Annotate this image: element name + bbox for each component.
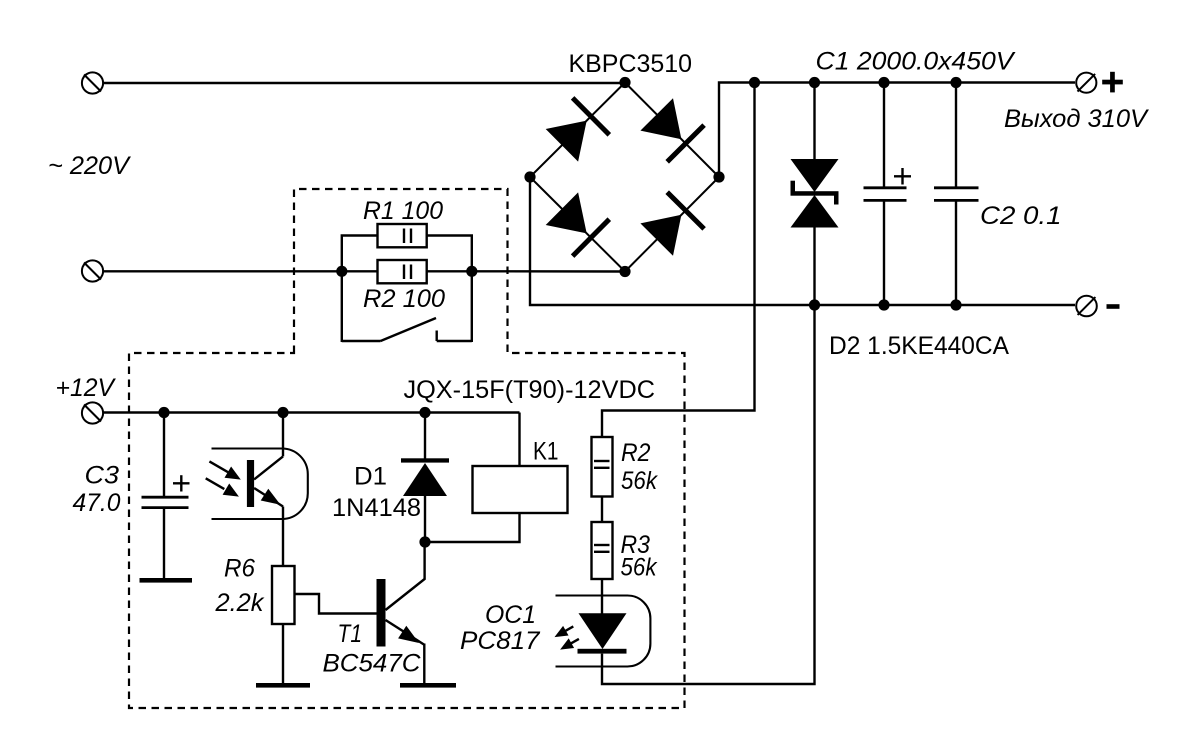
node positive rail to divider feed xyxy=(749,77,760,88)
wire R1 left lead xyxy=(342,236,378,343)
svg-text:1N4148: 1N4148 xyxy=(332,494,421,522)
svg-text:C3: C3 xyxy=(85,462,120,490)
wire R1 right lead xyxy=(427,236,472,343)
wire divider feed from positive rail xyxy=(602,83,755,438)
ground under T1 emitter xyxy=(400,683,456,688)
resistor R2 56k internal marks xyxy=(594,461,610,468)
optocoupler light arrows in xyxy=(206,461,241,496)
svg-text:T1: T1 xyxy=(338,620,363,648)
svg-text:47.0: 47.0 xyxy=(73,489,121,517)
node +12V rail C3 xyxy=(158,407,169,418)
capacitor C1 leads xyxy=(883,83,885,306)
dashed enclosure soft-start module xyxy=(129,189,685,708)
wire AC line 2 from resistors to bridge xyxy=(472,270,625,273)
TVS diode D2 leads xyxy=(813,83,815,306)
svg-text:56k: 56k xyxy=(621,467,658,495)
node negative rail C1 xyxy=(878,299,889,310)
svg-text:R2: R2 xyxy=(621,439,651,467)
svg-text:2.2k: 2.2k xyxy=(214,589,265,617)
node negative rail C2 xyxy=(950,299,961,310)
resistor R3 56k internal marks xyxy=(594,545,610,552)
wire bridge minus output to negative rail xyxy=(530,177,1075,305)
wire K1 bottom return to junction xyxy=(425,513,520,542)
node bridge plus right vertex xyxy=(713,171,724,182)
svg-text:K1: K1 xyxy=(533,438,559,466)
node AC2 left junction xyxy=(336,266,347,277)
bridge diode lower-right xyxy=(640,192,704,256)
wire R2 to R3 xyxy=(601,497,603,523)
terminal output plus xyxy=(1076,73,1096,93)
svg-text:R1 100: R1 100 xyxy=(363,197,443,225)
svg-text:JQX-15F(T90)-12VDC: JQX-15F(T90)-12VDC xyxy=(404,376,656,404)
node positive rail D2 xyxy=(809,77,820,88)
output minus sign xyxy=(1107,304,1120,309)
ground under C3 xyxy=(140,578,193,583)
svg-text:D1: D1 xyxy=(354,463,387,491)
ground under R6 xyxy=(256,683,310,688)
capacitor C1 polarity plus xyxy=(894,168,911,185)
TVS diode D2 body xyxy=(791,159,839,228)
svg-text:BC547C: BC547C xyxy=(323,650,422,678)
bridge edge wires xyxy=(530,83,719,272)
node positive rail C1 xyxy=(878,77,889,88)
resistor R1 internal marks xyxy=(404,229,411,244)
wire emitter to R6 xyxy=(282,507,284,567)
node bridge minus left vertex xyxy=(524,171,535,182)
optocoupler LED light arrows out xyxy=(555,626,579,650)
terminal output minus xyxy=(1076,296,1097,317)
svg-text:C2 0.1: C2 0.1 xyxy=(980,202,1062,230)
wire bridge plus output to positive rail xyxy=(719,83,1075,178)
wire R6 tap to T1 base xyxy=(295,594,377,614)
bridge diode upper-right xyxy=(640,98,704,162)
node negative rail D2 xyxy=(809,299,820,310)
svg-text:R6: R6 xyxy=(224,555,255,583)
svg-text:PC817: PC817 xyxy=(460,627,541,655)
resistor R3 56k body xyxy=(592,522,613,579)
resistor R6 body xyxy=(272,566,295,624)
optocoupler LED package xyxy=(556,596,651,667)
optocoupler LED OC1 body xyxy=(578,613,627,653)
relay coil K1 body xyxy=(473,466,568,513)
terminal +12V input xyxy=(82,402,103,423)
wire R3 to LED anode xyxy=(601,579,603,614)
wire R6 to ground xyxy=(282,624,284,683)
terminal AC input 1 xyxy=(82,72,103,93)
diode D1 leads xyxy=(424,413,426,543)
bridge diode lower-left xyxy=(546,192,610,256)
transistor T1 collector lead xyxy=(386,542,425,610)
svg-text:56k: 56k xyxy=(621,554,658,582)
diode D1 body xyxy=(401,458,449,496)
svg-text:KBPC3510: KBPC3510 xyxy=(569,50,693,78)
wire optocoupler collector from rail xyxy=(282,413,284,457)
transistor T1 emitter lead with arrow xyxy=(386,620,425,683)
bridge diode upper-left xyxy=(546,98,610,162)
relay contact K1.1 normally-open xyxy=(342,318,472,341)
resistor R1 body xyxy=(378,224,427,247)
node bridge AC bottom vertex xyxy=(619,266,630,277)
transistor T1 base bar xyxy=(377,579,386,647)
capacitor C2 leads xyxy=(955,83,957,306)
svg-text:OC1: OC1 xyxy=(485,601,536,629)
svg-text:C1 2000.0x450V: C1 2000.0x450V xyxy=(816,48,1016,76)
capacitor C1 plates xyxy=(864,188,907,201)
node +12V rail optocoupler collector xyxy=(277,407,288,418)
svg-text:~ 220V: ~ 220V xyxy=(48,152,131,180)
svg-text:D2 1.5KE440CA: D2 1.5KE440CA xyxy=(829,332,1009,360)
node AC2 right junction xyxy=(466,266,477,277)
terminal AC input 2 xyxy=(82,260,103,281)
wire +12V rail xyxy=(104,411,520,413)
node bridge AC top vertex xyxy=(619,77,630,88)
wire LED cathode return to negative rail xyxy=(602,305,815,684)
svg-text:R2 100: R2 100 xyxy=(363,285,445,313)
wire K1 top from +12V rail xyxy=(518,413,520,467)
wire R2 right lead xyxy=(427,270,472,272)
capacitor C3 polarity plus xyxy=(173,475,190,491)
capacitor C3 plates xyxy=(142,497,189,507)
wire AC line 2 to soft-start resistors xyxy=(104,270,342,272)
capacitor C2 plates xyxy=(934,188,979,201)
output plus sign xyxy=(1102,72,1123,93)
node +12V rail D1 xyxy=(419,407,430,418)
wire R2 left lead xyxy=(342,270,378,272)
optocoupler phototransistor body xyxy=(247,456,283,507)
resistor R2 internal marks xyxy=(404,265,411,280)
svg-text:Выход 310V: Выход 310V xyxy=(1004,105,1149,133)
optocoupler phototransistor package xyxy=(212,449,308,520)
resistor R2 56k body xyxy=(592,437,613,497)
node positive rail C2 xyxy=(950,77,961,88)
resistor R2 body xyxy=(378,260,427,283)
svg-text:+12V: +12V xyxy=(56,374,117,402)
capacitor C3 leads xyxy=(163,413,165,579)
wire AC line 1 top rail xyxy=(104,82,626,84)
node D1 cathode T1 collector K1 junction xyxy=(419,536,430,547)
